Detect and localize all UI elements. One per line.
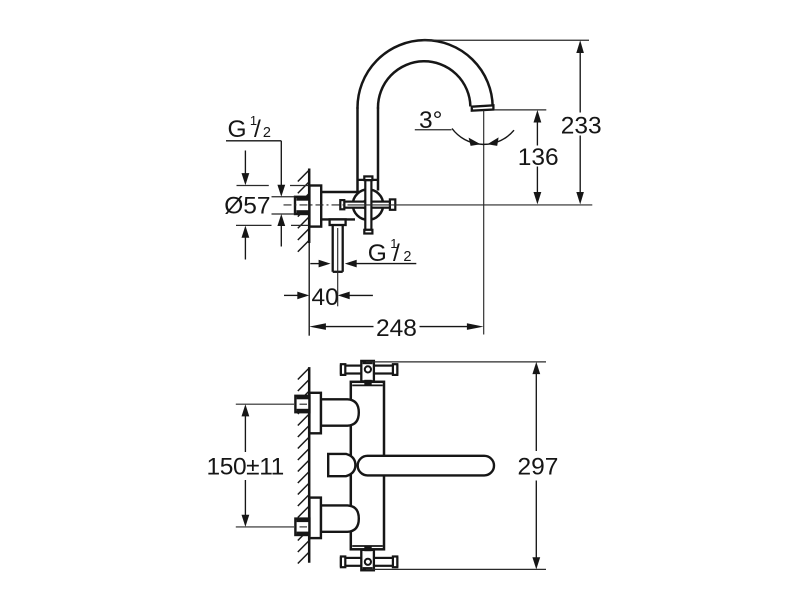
bottom union connector (front view) [321,505,359,531]
spout riser tube [358,108,379,192]
svg-text:/: / [254,116,261,143]
wall hatch (front view) [298,368,309,564]
svg-text:297: 297 [518,454,559,481]
dimension 233 [576,40,584,204]
leader G1/2 bottom outlet [310,260,416,268]
3 degree swivel arc with arrows [415,129,514,146]
svg-text:136: 136 [518,144,559,171]
outlet height extension line [494,109,546,111]
spout inner arc [378,61,470,108]
spout outlet aerator cap [472,105,494,110]
dimension diameter 57 [236,151,309,260]
spout top extension line [422,39,589,41]
wall hatch (side view) [298,170,309,252]
svg-text:233: 233 [561,112,602,139]
dimension 136 [534,110,542,204]
dimension 150 plus-minus 11 [242,404,250,527]
handle hub circle (side view) [363,200,373,210]
label G 1/2 (wall union thread) [228,113,271,143]
top union centerline [236,403,307,405]
dimension 297 [366,362,546,570]
top hex nut (front view) [295,396,309,412]
top cross handle (front view) [341,361,397,385]
bottom cross handle (front view) [341,546,397,571]
svg-text:2: 2 [263,125,271,141]
dimension 40 [284,292,373,300]
wall line (side view) [308,169,311,336]
svg-text:Ø: Ø [224,192,243,219]
bottom wall flange (front view) [309,498,321,538]
svg-text:G: G [228,116,247,143]
hex nipple G1/2 (side view) [295,197,309,214]
svg-text:150±11: 150±11 [207,454,284,481]
dimension 248 [309,323,483,330]
svg-text:57: 57 [243,192,270,219]
top wall flange (front view) [309,393,321,434]
leader G1/2 top [226,141,285,247]
vertical centerline through outlet [483,111,485,335]
valve rosette circle (side view) [353,189,383,219]
wall flange escutcheon (side view) [309,186,321,227]
outlet pipe centerline [337,228,339,306]
bottom union centerline [236,526,307,528]
bottom outlet pipe G1/2 (side view) [333,225,343,272]
svg-text:40: 40 [312,284,339,311]
wall line (front view) [308,367,311,563]
label G 1/2 (bottom outlet thread) [368,236,412,267]
cross handle horizontal arm (side view) [340,199,395,209]
bottom outlet collar (side view) [330,219,346,225]
nipple extension lines [272,197,295,214]
svg-text:248: 248 [376,315,417,342]
top union connector (front view) [321,399,359,425]
valve body (side view) [321,192,359,219]
svg-text:3°: 3° [419,107,442,134]
svg-text:2: 2 [403,249,411,265]
cross handle vertical arm (side view) [364,176,372,233]
mixer body (front view) [351,382,384,550]
bottom hex nut (front view) [295,519,309,535]
diverter knob (front view) [328,454,355,476]
spout outer arc [357,40,492,108]
bath spout (front view) [358,456,494,476]
horizontal centerline of faucet body [284,204,593,206]
